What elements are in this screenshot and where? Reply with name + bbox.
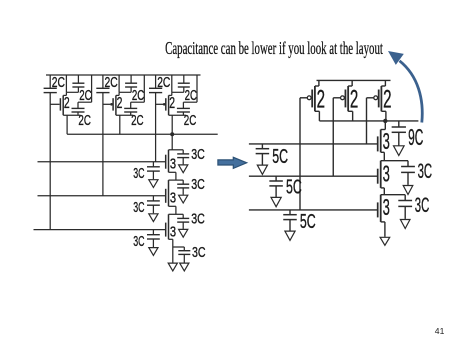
label M4 size 3 bbox=[170, 157, 176, 173]
wire: gate line C bbox=[34, 229, 166, 231]
svg-text:3: 3 bbox=[170, 157, 176, 173]
svg-text:2: 2 bbox=[383, 87, 391, 114]
capacitor 9C on output node bbox=[392, 121, 406, 146]
label C2a value 2C bbox=[105, 75, 118, 91]
wire: left common bus (node X) bbox=[67, 133, 218, 135]
transistor P1 (PMOS, size 2) bbox=[300, 80, 319, 121]
label C1b value 2C bbox=[79, 88, 91, 104]
label 5C line 1 bbox=[272, 146, 288, 168]
label M2 size 2 bbox=[117, 95, 123, 112]
ground below 5C line 3 bbox=[285, 231, 295, 240]
curved blue arrow to title bbox=[388, 51, 422, 123]
label N2 size 3 bbox=[383, 160, 390, 186]
capacitor C3a 2C (series on input) bbox=[149, 88, 162, 92]
capacitor 3C at drain of M5 bbox=[177, 180, 189, 195]
svg-text:5C: 5C bbox=[286, 176, 302, 198]
label 3C at drain of M4 bbox=[191, 147, 205, 163]
transistor M4 (stack, size 3) bbox=[166, 150, 184, 173]
ground below gate line B cap bbox=[149, 214, 158, 222]
capacitor C3b 2C (rail tap) bbox=[178, 75, 190, 92]
label 3C at drain of M5 bbox=[191, 177, 205, 193]
wire: gate of P1 down to select line bbox=[299, 98, 301, 210]
capacitor C2c 2C (source cap) bbox=[124, 75, 144, 115]
transistor M3 (pass, size 2) bbox=[156, 92, 186, 115]
label 3C gate line B bbox=[133, 200, 144, 216]
wire: stack source to ground bbox=[172, 239, 174, 262]
label C2c value 2C bbox=[131, 113, 144, 129]
wire: rail to drain cell 2 bbox=[119, 75, 131, 92]
wire: bus down to stack bbox=[171, 134, 173, 150]
capacitor C1a 2C (series on input) bbox=[44, 88, 57, 92]
svg-text:2C: 2C bbox=[52, 75, 65, 91]
wire: source of M3 down to bus bbox=[171, 115, 173, 134]
label 3C gate line C bbox=[133, 234, 144, 250]
label P2 size 2 bbox=[350, 87, 358, 114]
wire: right top rail bbox=[317, 79, 391, 81]
label C2b value 2C bbox=[132, 88, 144, 104]
label M1 size 2 bbox=[64, 95, 70, 112]
label C3a value 2C bbox=[157, 75, 170, 91]
wire: input drop cell 2 bbox=[102, 75, 104, 196]
svg-text:2: 2 bbox=[117, 95, 123, 112]
label M3 size 2 bbox=[169, 95, 175, 112]
wire: input drop cell 1 bbox=[49, 75, 51, 230]
big blue arrow pointing right bbox=[218, 157, 247, 168]
label 3C of N2 bbox=[418, 160, 433, 183]
svg-text:2: 2 bbox=[317, 87, 325, 114]
svg-text:Capacitance can be lower if yo: Capacitance can be lower if you look at … bbox=[165, 38, 383, 58]
label C3c value 2C bbox=[184, 113, 197, 129]
ground below 3C of M6 bbox=[179, 229, 188, 237]
transistor P2 (PMOS, size 2) bbox=[333, 80, 352, 121]
transistor M5 (stack, size 3) bbox=[166, 180, 184, 206]
wire: right select line 2 bbox=[249, 175, 378, 177]
svg-text:2C: 2C bbox=[131, 113, 144, 129]
ground below 9C bbox=[394, 146, 405, 156]
ground below 5C line 1 bbox=[257, 165, 267, 174]
label 3C gate line A bbox=[133, 166, 144, 182]
transistor N1 (right stack, size 3) bbox=[378, 130, 386, 153]
capacitor 3C on gate line A bbox=[147, 162, 160, 180]
label 3C at drain of M6 bbox=[191, 211, 205, 227]
wire: gate of P3 down to select line bbox=[366, 98, 368, 144]
svg-text:3C: 3C bbox=[191, 211, 205, 227]
capacitor 3C at drain of N3 bbox=[398, 195, 412, 219]
wire: source of M1 down to bus bbox=[66, 115, 68, 134]
svg-text:5C: 5C bbox=[300, 211, 316, 233]
label 5C line 3 bbox=[300, 211, 316, 233]
capacitor C1b 2C (rail tap) bbox=[72, 75, 84, 92]
wire: gate line B bbox=[38, 195, 166, 197]
svg-text:3: 3 bbox=[383, 128, 390, 154]
capacitor 3C at stack bottom bbox=[173, 247, 191, 263]
svg-text:3C: 3C bbox=[192, 245, 206, 261]
ground at stack source bbox=[168, 263, 177, 271]
ground below 5C line 2 bbox=[271, 197, 281, 206]
label M6 size 3 bbox=[170, 225, 176, 241]
capacitor 3C at drain of M6 bbox=[177, 214, 189, 229]
svg-text:3C: 3C bbox=[133, 234, 144, 250]
label N1 size 3 bbox=[383, 128, 390, 154]
transistor N2 (right stack, size 3) bbox=[378, 161, 408, 188]
wire: source of M2 down to bus bbox=[119, 115, 121, 134]
svg-text:3: 3 bbox=[383, 194, 390, 220]
wire: gate of P2 down to select line bbox=[332, 98, 334, 176]
wire: gate line A bbox=[38, 161, 166, 163]
label C1c value 2C bbox=[78, 113, 91, 129]
capacitor 3C at drain of N2 bbox=[401, 161, 415, 185]
ground below gate line C cap bbox=[149, 248, 158, 256]
wire: right select line 3 bbox=[249, 209, 378, 211]
svg-text:2: 2 bbox=[64, 95, 70, 112]
label 3C of N3 bbox=[415, 194, 430, 217]
label M5 size 3 bbox=[170, 191, 176, 207]
svg-text:9C: 9C bbox=[408, 124, 423, 150]
ground below 3C of M4 bbox=[179, 165, 188, 173]
svg-text:2C: 2C bbox=[78, 113, 91, 129]
wire: rail to drain cell 3 bbox=[172, 75, 184, 92]
ground below gate line A cap bbox=[149, 180, 158, 188]
capacitor C3c 2C (source cap) bbox=[177, 75, 197, 115]
wire: source of M5 to next bbox=[175, 206, 177, 214]
wire: right output line (node Y) bbox=[319, 120, 418, 122]
transistor P3 (PMOS, size 2) bbox=[367, 80, 386, 121]
node Y junction dot bbox=[383, 119, 387, 123]
svg-text:3C: 3C bbox=[418, 160, 433, 183]
svg-text:2: 2 bbox=[169, 95, 175, 112]
capacitor 3C on gate line B bbox=[147, 196, 160, 214]
svg-text:5C: 5C bbox=[272, 146, 288, 168]
svg-text:3: 3 bbox=[170, 225, 176, 241]
svg-text:3C: 3C bbox=[191, 147, 205, 163]
wire: N1 source to N2 bbox=[383, 152, 385, 160]
svg-text:3C: 3C bbox=[191, 177, 205, 193]
label 5C line 2 bbox=[286, 176, 302, 198]
svg-text:3C: 3C bbox=[415, 194, 430, 217]
ground below bottom 3C bbox=[180, 263, 189, 271]
ground below 3C of N3 bbox=[400, 220, 410, 229]
svg-text:2C: 2C bbox=[105, 75, 118, 91]
ground below 3C of M5 bbox=[179, 195, 188, 203]
wire: input drop cell 3 bbox=[155, 75, 157, 162]
node X junction dot bbox=[170, 132, 174, 136]
capacitor 5C on right select line 2 bbox=[269, 176, 283, 197]
transistor M6 (stack, size 3) bbox=[166, 214, 184, 239]
svg-text:2: 2 bbox=[350, 87, 358, 114]
wire: right select line 1 bbox=[249, 143, 378, 145]
capacitor C2b 2C (rail tap) bbox=[125, 75, 137, 92]
label N3 size 3 bbox=[383, 194, 390, 220]
svg-text:3: 3 bbox=[170, 191, 176, 207]
transistor M2 (pass, size 2) bbox=[103, 92, 133, 115]
wire: N2 source to N3 bbox=[383, 188, 385, 195]
ground at right stack source bbox=[380, 237, 390, 245]
wire: source of M4 to next bbox=[175, 172, 177, 180]
wire: output down to right stack bbox=[384, 121, 386, 130]
label C1a value 2C bbox=[52, 75, 65, 91]
capacitor 3C at drain of M4 bbox=[177, 150, 189, 165]
label bottom 3C bbox=[192, 245, 206, 261]
wire: left top rail bbox=[46, 74, 201, 76]
capacitor 5C on right select line 1 bbox=[256, 144, 270, 165]
capacitor 5C on right select line 3 bbox=[283, 210, 297, 231]
svg-text:41: 41 bbox=[435, 326, 445, 336]
svg-text:2C: 2C bbox=[184, 113, 197, 129]
svg-text:3C: 3C bbox=[133, 166, 144, 182]
wire: right stack source to ground bbox=[384, 222, 386, 237]
capacitor C2a 2C (series on input) bbox=[96, 88, 109, 92]
svg-text:3C: 3C bbox=[133, 200, 144, 216]
label P3 size 2 bbox=[383, 87, 391, 114]
ground below 3C of N2 bbox=[403, 186, 413, 195]
wire: rail to drain cell 1 bbox=[66, 75, 78, 92]
svg-text:2C: 2C bbox=[157, 75, 170, 91]
transistor M1 (pass, size 2) bbox=[50, 92, 80, 115]
capacitor 3C on gate line C bbox=[147, 230, 160, 248]
label 9C bbox=[408, 124, 423, 150]
label C3b value 2C bbox=[185, 88, 197, 104]
capacitor C1c 2C (source cap) bbox=[72, 75, 92, 115]
svg-text:3: 3 bbox=[383, 160, 390, 186]
transistor N3 (right stack, size 3) bbox=[378, 195, 406, 222]
label P1 size 2 bbox=[317, 87, 325, 114]
